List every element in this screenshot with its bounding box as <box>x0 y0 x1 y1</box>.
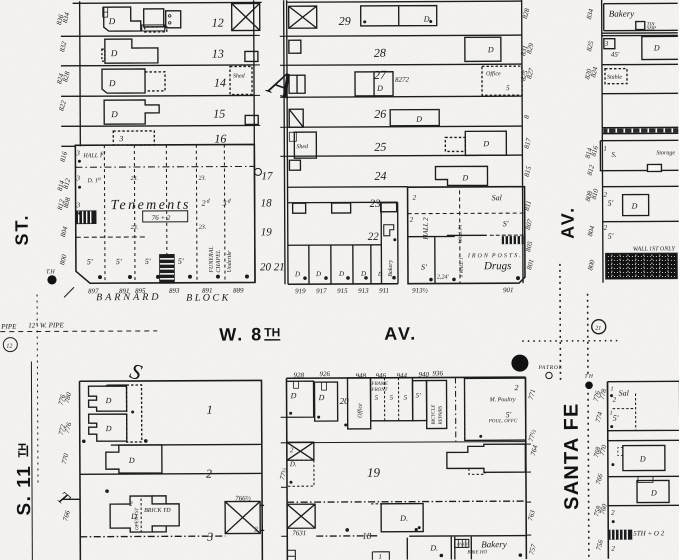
svg-text:S': S' <box>503 219 509 228</box>
svg-text:FRONT: FRONT <box>371 388 389 393</box>
svg-text:940: 940 <box>418 371 429 379</box>
svg-text:5': 5' <box>145 257 151 266</box>
svg-text:5: 5 <box>404 394 408 402</box>
svg-text:SHP: SHP <box>647 26 656 31</box>
svg-text:OVEN: OVEN <box>457 541 468 546</box>
svg-text:24: 24 <box>374 169 386 183</box>
svg-text:2: 2 <box>604 224 608 232</box>
svg-text:CHAPEL: CHAPEL <box>216 249 222 272</box>
svg-text:5': 5' <box>116 257 122 266</box>
svg-text:23: 23 <box>370 198 382 210</box>
svg-text:915: 915 <box>337 287 348 295</box>
svg-text:Bakery: Bakery <box>481 539 507 549</box>
svg-text:Tenements: Tenements <box>111 198 191 213</box>
svg-text:19: 19 <box>261 226 273 238</box>
svg-text:23.: 23. <box>198 176 206 182</box>
svg-text:D: D <box>105 396 112 405</box>
svg-text:ST.: ST. <box>12 213 32 245</box>
svg-text:Stable: Stable <box>607 75 622 81</box>
svg-text:AV.: AV. <box>558 206 578 239</box>
svg-text:D: D <box>110 48 118 58</box>
svg-text:Shed: Shed <box>233 73 246 79</box>
svg-text:5': 5' <box>608 232 614 241</box>
svg-text:893: 893 <box>169 287 180 295</box>
svg-text:D: D <box>128 456 135 465</box>
svg-text:D: D <box>108 78 116 88</box>
svg-text:5': 5' <box>416 392 422 400</box>
svg-text:17: 17 <box>261 170 273 182</box>
svg-text:2: 2 <box>290 446 294 454</box>
svg-text:8272: 8272 <box>395 76 410 84</box>
svg-text:913½: 913½ <box>412 287 429 295</box>
svg-text:946: 946 <box>375 372 386 380</box>
svg-text:Shed: Shed <box>296 144 309 150</box>
svg-text:12: 12 <box>6 344 12 350</box>
svg-text:D: D <box>376 84 383 93</box>
svg-text:12" W. PIPE: 12" W. PIPE <box>28 321 64 329</box>
svg-text:Bakery: Bakery <box>609 9 635 19</box>
svg-text:D: D <box>108 16 116 26</box>
svg-text:D.: D. <box>399 514 408 523</box>
svg-text:2: 2 <box>611 509 615 517</box>
svg-text:1: 1 <box>603 145 607 153</box>
svg-text:917: 917 <box>316 287 327 295</box>
svg-text:944: 944 <box>396 372 407 380</box>
svg-text:FUNERAL: FUNERAL <box>209 246 215 274</box>
svg-text:REPAIRS: REPAIRS <box>439 405 444 425</box>
svg-text:WALL 1ST ONLY: WALL 1ST ONLY <box>633 246 676 252</box>
svg-text:19: 19 <box>367 465 381 480</box>
svg-text:3: 3 <box>604 40 609 48</box>
svg-text:5': 5' <box>613 414 619 423</box>
svg-text:14: 14 <box>214 76 226 90</box>
svg-text:2: 2 <box>129 500 133 508</box>
svg-text:D: D <box>487 45 494 54</box>
svg-text:Office: Office <box>486 70 501 77</box>
svg-text:1: 1 <box>610 411 613 417</box>
svg-text:D: D <box>639 455 646 464</box>
svg-text:948: 948 <box>355 372 366 380</box>
svg-text:13: 13 <box>212 47 224 61</box>
svg-text:23.: 23. <box>130 176 138 182</box>
svg-text:18: 18 <box>261 197 273 209</box>
svg-text:D: D <box>631 202 638 211</box>
svg-text:WALL P1: WALL P1 <box>459 224 464 243</box>
svg-text:PATROL: PATROL <box>537 365 562 371</box>
svg-text:SANTA FE: SANTA FE <box>561 402 584 509</box>
svg-text:D. 1: D. 1 <box>86 178 97 184</box>
svg-text:5': 5' <box>608 199 614 208</box>
svg-text:1: 1 <box>207 403 213 417</box>
svg-text:W. 8: W. 8 <box>219 324 263 344</box>
svg-text:2: 2 <box>515 383 519 392</box>
svg-text:D: D <box>315 270 321 278</box>
svg-text:2: 2 <box>206 467 212 481</box>
svg-text:20: 20 <box>340 396 350 406</box>
svg-text:POSTS.: POSTS. <box>491 253 523 259</box>
svg-text:5: 5 <box>390 394 394 402</box>
svg-text:12: 12 <box>212 16 224 30</box>
svg-text:D: D <box>423 15 430 24</box>
svg-text:2: 2 <box>202 199 206 208</box>
svg-text:FRAME: FRAME <box>370 382 387 387</box>
svg-text:928: 928 <box>293 371 304 379</box>
svg-text:45': 45' <box>611 51 620 59</box>
svg-text:5: 5 <box>506 84 510 92</box>
svg-text:Undertkr: Undertkr <box>227 250 233 273</box>
svg-text:25: 25 <box>374 140 386 154</box>
svg-text:2: 2 <box>613 396 617 404</box>
svg-text:919: 919 <box>295 287 306 295</box>
svg-text:2: 2 <box>254 525 258 533</box>
svg-text:D: D <box>653 43 660 52</box>
svg-text:BICYCLE: BICYCLE <box>432 405 437 425</box>
svg-text:BLOCK: BLOCK <box>186 293 231 304</box>
svg-text:28: 28 <box>374 46 386 60</box>
svg-text:20 21: 20 21 <box>260 261 285 273</box>
svg-text:3: 3 <box>206 530 213 544</box>
svg-text:Sal: Sal <box>492 193 503 202</box>
svg-text:18: 18 <box>362 531 372 541</box>
svg-text:29: 29 <box>339 14 351 28</box>
svg-text:3: 3 <box>76 201 81 209</box>
svg-text:POUL. OFFC: POUL. OFFC <box>488 419 518 424</box>
svg-text:26: 26 <box>374 107 386 121</box>
svg-text:Bakery: Bakery <box>388 259 394 276</box>
svg-text:15: 15 <box>213 107 225 121</box>
svg-text:2: 2 <box>410 216 414 224</box>
svg-text:D: D <box>294 270 300 278</box>
svg-text:2: 2 <box>413 194 417 202</box>
svg-text:D: D <box>415 115 422 124</box>
svg-text:5': 5' <box>178 257 184 266</box>
svg-text:D: D <box>105 424 112 433</box>
svg-text:PIPE: PIPE <box>0 323 17 331</box>
svg-text:T.H: T.H <box>46 269 55 275</box>
svg-text:M. Poultry: M. Poultry <box>489 397 516 403</box>
svg-text:21: 21 <box>595 326 601 332</box>
svg-text:AV.: AV. <box>384 324 417 344</box>
svg-text:1: 1 <box>378 553 382 560</box>
svg-text:2,24': 2,24' <box>437 273 450 280</box>
svg-text:BARNARD: BARNARD <box>96 292 161 303</box>
svg-text:901: 901 <box>503 286 514 294</box>
svg-text:5TH + O 2: 5TH + O 2 <box>633 529 665 537</box>
svg-text:3: 3 <box>75 174 80 182</box>
svg-text:D: D <box>650 488 657 497</box>
svg-text:HALL 2: HALL 2 <box>422 217 430 241</box>
svg-text:9 WALL 1: 9 WALL 1 <box>460 258 465 278</box>
svg-text:23.: 23. <box>131 225 139 231</box>
svg-text:D.: D. <box>289 460 297 468</box>
svg-text:936: 936 <box>432 369 443 377</box>
svg-text:911: 911 <box>379 287 389 295</box>
svg-text:OPEN 1ST: OPEN 1ST <box>135 507 140 530</box>
svg-text:1: 1 <box>611 387 614 393</box>
svg-text:BRICK YD: BRICK YD <box>144 508 171 514</box>
svg-text:S': S' <box>421 263 427 272</box>
svg-text:S.: S. <box>611 151 617 159</box>
svg-text:27: 27 <box>374 68 387 82</box>
svg-text:889: 889 <box>233 286 244 294</box>
svg-text:2: 2 <box>611 545 615 553</box>
svg-text:23.: 23. <box>199 225 207 231</box>
svg-text:Sal: Sal <box>619 389 630 398</box>
svg-text:Storage: Storage <box>656 150 675 156</box>
svg-text:Office: Office <box>357 403 364 418</box>
svg-text:Drugs: Drugs <box>483 260 512 272</box>
svg-text:16: 16 <box>214 132 226 146</box>
svg-text:926: 926 <box>319 370 330 378</box>
svg-text:7631: 7631 <box>292 529 306 537</box>
svg-text:D: D <box>461 173 468 182</box>
svg-text:3: 3 <box>222 199 227 208</box>
svg-text:TH: TH <box>264 325 280 339</box>
svg-text:D: D <box>110 109 118 119</box>
svg-text:5: 5 <box>375 394 379 402</box>
svg-text:B.&E HO: B.&E HO <box>467 550 487 555</box>
svg-text:D: D <box>482 139 489 148</box>
svg-text:5': 5' <box>87 257 93 266</box>
svg-text:T H: T H <box>584 374 593 380</box>
svg-text:76 + 2: 76 + 2 <box>152 214 171 222</box>
svg-text:D: D <box>338 270 344 278</box>
svg-text:22: 22 <box>368 231 380 243</box>
svg-text:3: 3 <box>75 149 80 157</box>
svg-text:5': 5' <box>506 410 512 419</box>
svg-text:D: D <box>318 393 325 402</box>
svg-text:D: D <box>290 391 297 400</box>
svg-text:3: 3 <box>118 134 123 143</box>
svg-text:IRON: IRON <box>467 253 490 259</box>
svg-text:D: D <box>377 272 383 278</box>
svg-text:913: 913 <box>358 287 369 295</box>
svg-text:2: 2 <box>604 191 608 199</box>
svg-text:766½: 766½ <box>235 494 252 502</box>
svg-text:D.: D. <box>429 544 438 553</box>
